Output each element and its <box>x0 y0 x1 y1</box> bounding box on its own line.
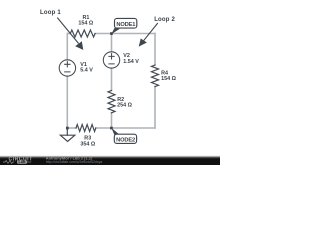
loop 1 annotation arrow <box>57 18 83 50</box>
svg-text:354 Ω: 354 Ω <box>80 141 95 147</box>
junction node top <box>110 32 113 35</box>
wire right rail top to R4 <box>154 34 156 66</box>
wire middle rail top <box>111 34 113 52</box>
NODE1 label box <box>115 18 137 28</box>
svg-text:R3: R3 <box>84 135 91 141</box>
ground <box>66 128 68 135</box>
wire left rail upper segment <box>66 34 68 60</box>
wire bottom left lead <box>67 127 76 129</box>
svg-text:154 Ω: 154 Ω <box>161 76 176 82</box>
svg-text:Loop 2: Loop 2 <box>154 17 175 23</box>
junction node bottom-middle <box>110 127 113 130</box>
svg-text:http://circuitlab.com/c/2e8cdd: http://circuitlab.com/c/2e8cdd42dcya <box>46 160 103 164</box>
svg-text:1.54 V: 1.54 V <box>123 59 139 65</box>
svg-text:Loop 1: Loop 1 <box>40 10 61 16</box>
resistor R2 <box>108 91 115 113</box>
circuitlab logo <box>3 156 33 164</box>
wire top R1 to right corner <box>95 33 155 35</box>
NODE1 flag pointer <box>111 28 120 34</box>
junction node bottom-left <box>66 127 69 130</box>
loop 2 annotation arrow <box>139 23 158 47</box>
wire middle rail R2 to bottom <box>111 113 113 128</box>
resistor R1 <box>70 30 95 37</box>
resistor R3 <box>76 125 96 132</box>
svg-text:5.4 V: 5.4 V <box>80 68 93 74</box>
svg-text:154 Ω: 154 Ω <box>78 21 93 27</box>
resistor R4 <box>152 65 159 87</box>
voltage source V1 <box>59 60 75 76</box>
svg-text:NODE2: NODE2 <box>116 137 135 143</box>
NODE2 flag pointer <box>111 128 119 135</box>
wire right rail R4 to bottom <box>154 87 156 128</box>
wire left rail lower segment <box>66 76 68 128</box>
wire top-left lead <box>67 33 70 35</box>
svg-text:LAB: LAB <box>19 160 27 164</box>
wire bottom R3 to right corner <box>96 127 155 129</box>
voltage source V2 <box>103 52 119 68</box>
svg-text:NODE1: NODE1 <box>116 22 135 28</box>
svg-text:254 Ω: 254 Ω <box>117 102 132 108</box>
wire middle rail V2 to R2 <box>111 68 113 90</box>
NODE2 label box <box>114 134 136 143</box>
